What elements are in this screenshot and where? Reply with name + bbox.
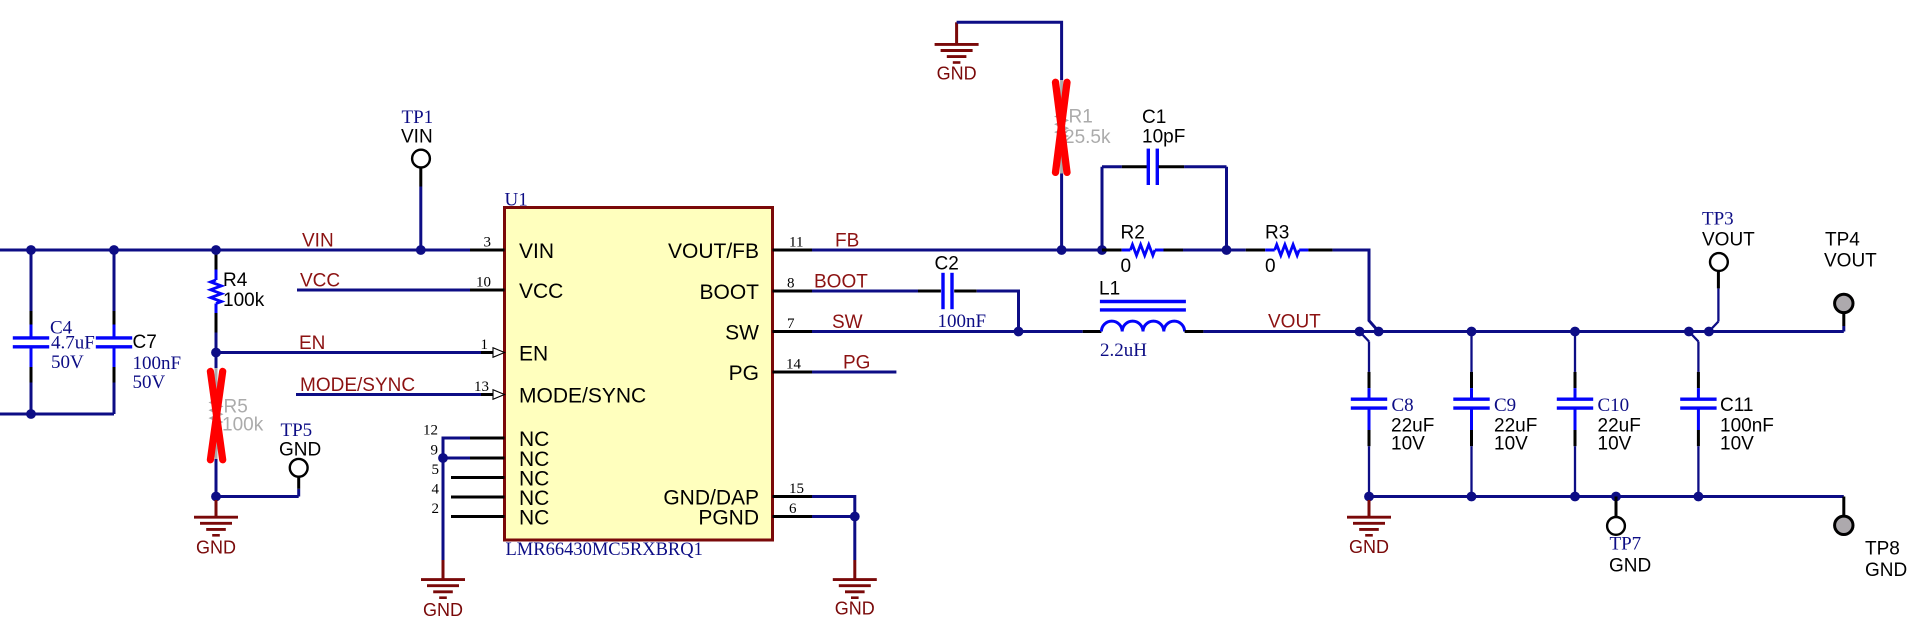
svg-text:SW: SW xyxy=(725,322,759,345)
svg-text:TP8: TP8 xyxy=(1865,539,1900,560)
capacitor C7 xyxy=(96,250,181,414)
node junction EN xyxy=(211,348,221,358)
wire VIN input rail xyxy=(0,249,470,252)
resistor R3 xyxy=(1227,223,1333,278)
capacitor C2 xyxy=(918,254,1019,333)
pin 3 VIN stub xyxy=(470,235,554,264)
capacitor C10 xyxy=(1557,332,1641,497)
capacitor C1 feedback loop xyxy=(1102,107,1227,250)
node junction TP7 ground xyxy=(1611,492,1621,502)
svg-text:13: 13 xyxy=(474,379,489,395)
svg-text:EN: EN xyxy=(299,333,325,354)
svg-text:100nF: 100nF xyxy=(938,311,987,332)
svg-text:C11: C11 xyxy=(1720,395,1753,416)
svg-text:EN: EN xyxy=(519,343,548,366)
test point TP3 xyxy=(1702,209,1755,332)
node junction C4 top xyxy=(26,245,36,255)
svg-text:VIN: VIN xyxy=(302,231,334,252)
svg-text:GND: GND xyxy=(196,538,236,558)
node junction VOUT jog right xyxy=(1374,327,1384,337)
node junction R1 FB rail xyxy=(1057,245,1067,255)
pin 7 SW stub xyxy=(725,316,812,345)
svg-text:MODE/SYNC: MODE/SYNC xyxy=(519,385,646,408)
net label EN xyxy=(299,333,325,354)
svg-text:C9: C9 xyxy=(1494,395,1516,416)
svg-text:R3: R3 xyxy=(1265,223,1289,244)
svg-text:VCC: VCC xyxy=(519,280,563,303)
node junction TP1 VIN rail xyxy=(416,245,426,255)
wire VCC net xyxy=(297,289,470,292)
node junction TP3 jog right xyxy=(1704,327,1714,337)
pin 10 VCC stub xyxy=(470,275,563,304)
svg-text:12: 12 xyxy=(423,423,438,439)
svg-text:8: 8 xyxy=(787,276,795,292)
net label VIN xyxy=(302,231,334,252)
wire top ground to R1 xyxy=(957,22,1062,80)
pin 6 PGND stub xyxy=(698,501,812,530)
node junction C9 ground xyxy=(1467,492,1477,502)
svg-text:VCC: VCC xyxy=(300,271,340,292)
svg-text:1: 1 xyxy=(481,337,489,353)
svg-text:GND: GND xyxy=(1609,556,1651,577)
resistor R5 (DNP) xyxy=(212,353,264,497)
svg-text:2.2uH: 2.2uH xyxy=(1100,340,1147,361)
capacitor C8 xyxy=(1351,332,1435,497)
svg-text:10: 10 xyxy=(476,275,491,291)
svg-text:C2: C2 xyxy=(935,254,959,275)
wire VOUT net xyxy=(1203,312,1359,333)
node junction C10 top xyxy=(1570,327,1580,337)
test point TP8 xyxy=(1835,497,1908,582)
node junction C9 top xyxy=(1467,327,1477,337)
svg-text:11: 11 xyxy=(789,235,803,251)
pin 8 BOOT stub xyxy=(699,276,812,305)
svg-text:L1: L1 xyxy=(1099,279,1120,300)
wire MODE/SYNC net xyxy=(296,393,481,396)
svg-text:10pF: 10pF xyxy=(1142,127,1185,148)
svg-text:10V: 10V xyxy=(1391,434,1425,455)
svg-text:10V: 10V xyxy=(1494,434,1528,455)
svg-text:FB: FB xyxy=(835,231,859,252)
capacitor C11 xyxy=(1680,332,1774,497)
svg-text:GND: GND xyxy=(835,599,875,619)
test point TP7 xyxy=(1607,497,1651,577)
capacitor C9 xyxy=(1453,332,1537,497)
pin 4 NC stub xyxy=(432,482,550,511)
svg-text:100k: 100k xyxy=(223,290,265,311)
svg-text:PG: PG xyxy=(729,362,759,385)
capacitor C4 xyxy=(13,250,95,414)
svg-text:0: 0 xyxy=(1265,256,1276,277)
svg-text:TP4: TP4 xyxy=(1825,230,1860,251)
node junction C8 ground xyxy=(1364,492,1374,502)
svg-text:7: 7 xyxy=(787,316,795,332)
DNP red X over R5 xyxy=(210,371,222,459)
svg-text:VOUT: VOUT xyxy=(1268,312,1321,333)
svg-text:14: 14 xyxy=(786,357,802,373)
node junction PGND xyxy=(850,512,860,522)
ground GND below R5 xyxy=(194,500,238,558)
net label VCC xyxy=(300,271,340,292)
node junction R4 top VIN rail xyxy=(211,245,221,255)
net label MODE/SYNC xyxy=(300,375,415,396)
inductor L1 xyxy=(1083,279,1204,362)
node junction C11 jog left xyxy=(1684,327,1694,337)
svg-text:VIN: VIN xyxy=(401,127,433,148)
node junction pin 9 xyxy=(438,453,448,463)
svg-text:100nF: 100nF xyxy=(133,353,182,374)
node junction R5 bottom xyxy=(211,492,221,502)
svg-text:R2: R2 xyxy=(1121,223,1145,244)
test point TP4 xyxy=(1824,230,1877,332)
pin 9 NC stub xyxy=(431,443,550,472)
svg-text:R1: R1 xyxy=(1069,107,1093,128)
wire GND/DAP and PGND to ground xyxy=(812,497,855,561)
svg-text:GND: GND xyxy=(423,600,463,620)
svg-text:BOOT: BOOT xyxy=(699,281,759,304)
svg-text:PG: PG xyxy=(843,353,870,374)
pin 1 EN stub with input arrow xyxy=(481,337,549,366)
wire NC pins 12 and 9 to ground xyxy=(443,438,470,560)
svg-text:15: 15 xyxy=(789,481,804,497)
svg-text:SW: SW xyxy=(832,312,863,333)
svg-text:C7: C7 xyxy=(133,332,157,353)
svg-text:0: 0 xyxy=(1121,256,1132,277)
svg-text:GND: GND xyxy=(1865,560,1907,581)
ground GND below NC pins xyxy=(421,560,465,620)
pin 2 NC stub xyxy=(432,501,550,530)
svg-text:TP5: TP5 xyxy=(281,420,313,441)
resistor R1 (DNP) xyxy=(1057,80,1111,250)
resistor R2 xyxy=(1102,223,1227,278)
test point TP1 xyxy=(401,107,433,250)
svg-text:5: 5 xyxy=(432,462,440,478)
ground GND top xyxy=(935,22,979,83)
svg-text:TP7: TP7 xyxy=(1610,534,1642,555)
node junction C1 left xyxy=(1097,245,1107,255)
pin 11 VOUT/FB stub xyxy=(668,235,812,264)
wire FB net xyxy=(812,231,1102,252)
svg-text:100k: 100k xyxy=(222,415,264,436)
node junction C4 bottom xyxy=(26,409,36,419)
svg-text:C1: C1 xyxy=(1142,107,1166,128)
svg-text:VOUT: VOUT xyxy=(1702,230,1755,251)
svg-text:2: 2 xyxy=(432,501,440,517)
pin 13 MODE/SYNC stub with input arrow xyxy=(474,379,646,408)
svg-text:MODE/SYNC: MODE/SYNC xyxy=(300,375,415,396)
svg-text:VIN: VIN xyxy=(519,240,554,263)
svg-text:TP1: TP1 xyxy=(402,107,434,128)
svg-text:GND: GND xyxy=(1349,537,1389,557)
svg-text:50V: 50V xyxy=(51,352,84,373)
ground GND output rail xyxy=(1347,500,1391,557)
wire PG net xyxy=(812,353,896,374)
DNP red X over R1 xyxy=(1056,82,1068,172)
svg-text:4.7uF: 4.7uF xyxy=(51,333,95,354)
svg-text:NC: NC xyxy=(519,507,549,530)
node junction C7 top xyxy=(109,245,119,255)
wire EN net xyxy=(216,351,481,354)
svg-text:VOUT/FB: VOUT/FB xyxy=(668,240,759,263)
svg-text:C8: C8 xyxy=(1392,395,1414,416)
svg-text:PGND: PGND xyxy=(698,507,759,530)
svg-text:GND: GND xyxy=(279,440,321,461)
node junction VOUT jog left xyxy=(1355,327,1365,337)
op-amp U1 LMR66430 body xyxy=(505,190,773,561)
test point TP5 xyxy=(216,420,321,497)
svg-text:C10: C10 xyxy=(1598,395,1630,416)
node junction C11 ground xyxy=(1694,492,1704,502)
wire SW net xyxy=(812,312,1083,333)
svg-text:10V: 10V xyxy=(1720,434,1754,455)
svg-text:3: 3 xyxy=(484,235,492,251)
svg-text:50V: 50V xyxy=(133,372,166,393)
wire BOOT net xyxy=(812,272,918,293)
svg-text:LMR66430MC5RXBRQ1: LMR66430MC5RXBRQ1 xyxy=(506,540,703,560)
node junction C1 right xyxy=(1222,245,1232,255)
svg-text:U1: U1 xyxy=(505,190,528,211)
pin 5 NC stub xyxy=(432,462,550,491)
wire input bottom rail xyxy=(0,413,114,416)
svg-text:GND: GND xyxy=(937,64,977,84)
svg-text:R4: R4 xyxy=(223,270,248,291)
svg-text:10V: 10V xyxy=(1598,434,1632,455)
wire output ground rail xyxy=(1369,495,1844,498)
wire R3 to VOUT rail xyxy=(1333,250,1379,332)
svg-text:BOOT: BOOT xyxy=(814,272,868,293)
node junction C2 SW rail xyxy=(1014,327,1024,337)
pin 12 NC stub xyxy=(423,423,549,452)
pin 14 PG stub xyxy=(729,357,812,386)
wire VOUT rail xyxy=(1360,330,1844,333)
svg-text:9: 9 xyxy=(431,443,439,459)
svg-text:25.5k: 25.5k xyxy=(1064,127,1111,148)
svg-text:6: 6 xyxy=(789,501,797,517)
svg-text:TP3: TP3 xyxy=(1702,209,1734,230)
svg-text:4: 4 xyxy=(432,482,440,498)
ground GND below PGND xyxy=(833,560,877,619)
svg-text:VOUT: VOUT xyxy=(1824,251,1877,272)
resistor R4 xyxy=(211,250,265,353)
node junction C10 ground xyxy=(1570,492,1580,502)
pin 15 GND/DAP stub xyxy=(663,481,812,510)
